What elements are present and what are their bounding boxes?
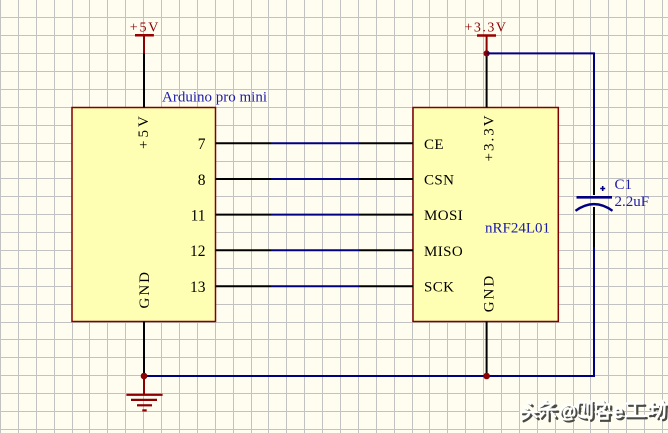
svg-text:nRF24L01: nRF24L01: [485, 221, 550, 237]
svg-text:GND: GND: [137, 270, 153, 309]
svg-text:C1: C1: [615, 177, 633, 193]
svg-text:13: 13: [190, 279, 206, 296]
pin MISO of U2: [359, 244, 463, 260]
svg-text:+5V: +5V: [130, 21, 160, 36]
svg-text:+3.3V: +3.3V: [464, 21, 507, 36]
pin GND of U1 (vertical, bottom): [137, 270, 153, 376]
junction dot at U1 GND: [141, 373, 148, 380]
svg-text:MISO: MISO: [424, 244, 463, 260]
power +5V symbol: [130, 21, 160, 54]
svg-text:Arduino pro mini: Arduino pro mini: [162, 90, 267, 106]
watermark 头条 @创客e工坊: [521, 401, 668, 426]
pin 12 of U1: [190, 243, 271, 260]
capacitor C1 pin 1: [593, 160, 595, 195]
svg-text:7: 7: [198, 136, 206, 153]
label nRF24L01: [485, 221, 550, 237]
capacitor C1 body: [576, 186, 613, 211]
wire 12-MISO: [271, 249, 359, 251]
wire +3.3V rail to capacitor (top): [487, 53, 594, 160]
wire 11-MOSI: [271, 214, 359, 216]
svg-text:@: @: [559, 402, 577, 422]
svg-text:CE: CE: [424, 137, 444, 153]
pin 13 of U1: [190, 279, 271, 296]
pin CE of U2: [359, 137, 444, 153]
wire 8-CSN: [271, 178, 359, 180]
wire 7-CE: [271, 142, 359, 144]
svg-text:CSN: CSN: [424, 173, 454, 189]
svg-text:MOSI: MOSI: [424, 208, 463, 224]
power +3.3V symbol: [464, 21, 507, 54]
svg-text:12: 12: [190, 243, 206, 260]
pin GND of U2 (vertical, bottom): [482, 274, 498, 376]
svg-text:+3.3V: +3.3V: [482, 113, 498, 161]
svg-text:GND: GND: [482, 274, 498, 313]
junction dot at +3.3V node: [484, 50, 490, 56]
label Arduino pro mini: [162, 90, 267, 106]
wire 13-SCK: [271, 285, 359, 287]
pin SCK of U2: [359, 280, 454, 296]
component U2 nRF24L01 box: [413, 108, 558, 322]
component U1 Arduino pro mini box: [72, 108, 216, 322]
pin 11 of U1: [191, 207, 271, 224]
svg-text:SCK: SCK: [424, 280, 454, 296]
label C1: [615, 177, 633, 193]
svg-text:2.2uF: 2.2uF: [615, 194, 650, 210]
pin +5V of U1 (vertical, top): [136, 54, 152, 150]
ground symbol: [126, 376, 162, 410]
pin 8 of U1: [198, 172, 271, 189]
svg-text:e: e: [613, 402, 624, 423]
label 2.2uF: [615, 194, 650, 210]
junction dot at U2 GND: [483, 373, 490, 380]
pin MOSI of U2: [359, 208, 463, 224]
svg-text:8: 8: [198, 172, 206, 189]
pin 7 of U1: [198, 136, 271, 153]
svg-text:11: 11: [191, 207, 206, 224]
wire ground bus (bottom): [144, 247, 594, 376]
capacitor C1 pin 2: [593, 207, 595, 247]
pin CSN of U2: [359, 173, 454, 189]
pin +3.3V of U2 (vertical, top): [482, 53, 498, 161]
svg-text:+5V: +5V: [136, 113, 152, 149]
